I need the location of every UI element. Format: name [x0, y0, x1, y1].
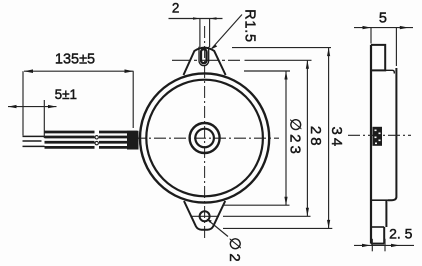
svg-text:∅2: ∅2	[226, 237, 243, 264]
outer circle (case)	[140, 73, 269, 202]
side view lower right edge	[385, 200, 387, 227]
svg-text:2. 5: 2. 5	[389, 226, 413, 242]
dimension 135±5 extension and line	[23, 71, 134, 135]
side view bottom tab right edge	[383, 227, 385, 244]
lead wires: insulated cable segment 2	[99, 132, 138, 147]
svg-text:2: 2	[172, 1, 180, 16]
center hole outer circle	[190, 123, 220, 153]
bare wire ends	[23, 136, 45, 146]
dimension 5 (side width) lines	[354, 28, 413, 66]
Φ2 leader line	[207, 220, 228, 237]
inner rim circle	[146, 80, 263, 197]
svg-text:5±1: 5±1	[55, 87, 77, 102]
extension line ear top (34)	[232, 47, 331, 49]
front view horizontal center line	[134, 137, 279, 139]
top mounting ear	[184, 48, 226, 75]
dimension line Φ23	[285, 71, 287, 205]
svg-text:R1.5: R1.5	[242, 9, 258, 43]
dimension line 28	[306, 60, 308, 216]
dimension 2 (slot width) lines	[169, 19, 223, 48]
side view left edge	[370, 45, 372, 244]
center hole inner circle	[195, 129, 214, 148]
extension line circle bottom (Φ23)	[223, 204, 290, 206]
side view center line	[348, 134, 411, 136]
dimension line 34	[328, 48, 330, 229]
cable end block at case	[127, 131, 139, 150]
bottom mounting ear	[184, 201, 225, 230]
dimension 5±1 extension and line	[8, 100, 57, 138]
svg-text:34: 34	[328, 127, 345, 150]
side view bottom tab step	[371, 226, 384, 228]
top ear slot inner	[201, 49, 207, 63]
side view top tab	[371, 45, 385, 71]
side view top step hook	[385, 70, 394, 73]
svg-text:∅23: ∅23	[287, 118, 304, 157]
extension line circle top (Φ23)	[244, 70, 290, 72]
extension line ear bottom (34)	[223, 227, 332, 229]
lead wires: insulated cable segment 1	[45, 132, 95, 147]
side view main right edge	[388, 68, 396, 200]
side view lip step line	[372, 199, 388, 201]
side view wire grommet block	[373, 127, 383, 146]
bottom ear hole	[200, 211, 210, 221]
front view vertical center line	[204, 26, 206, 241]
bottom hole horizontal center line	[192, 215, 219, 217]
R1.5 leader line	[212, 15, 242, 49]
top ear slot outer	[199, 47, 209, 66]
svg-text:135±5: 135±5	[55, 51, 95, 67]
top slot horizontal center line	[172, 59, 240, 61]
grommet speckles	[375, 130, 381, 145]
svg-text:5: 5	[379, 11, 387, 27]
svg-text:28: 28	[307, 126, 324, 149]
wire break circles	[95, 136, 98, 139]
dimension 2.5 lines	[354, 239, 414, 252]
side view bottom edge	[371, 243, 384, 245]
